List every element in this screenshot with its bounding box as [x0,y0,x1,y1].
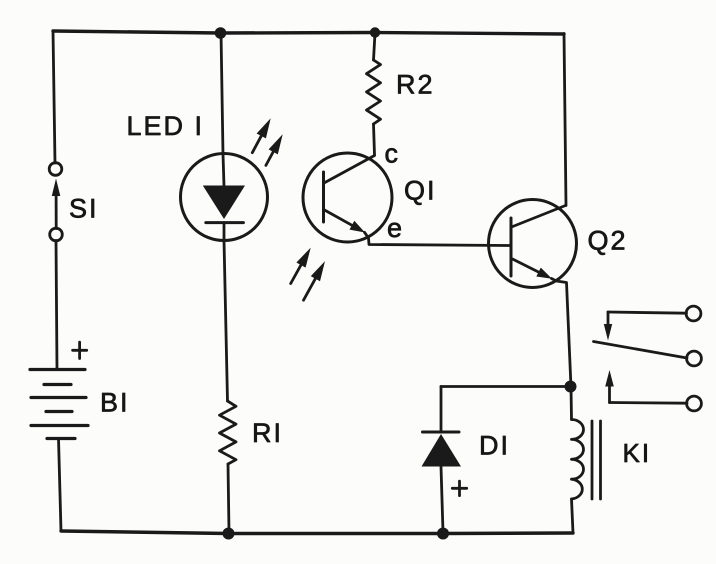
wire Q2 emitter down to relay [552,279,572,388]
wire coil to bottom rail [572,499,574,533]
svg-text:c: c [385,139,399,169]
node junction top of LED branch [215,27,227,39]
D1 plus sign [452,481,466,496]
svg-text:BI: BI [100,388,130,418]
wire top rail to LED [221,32,223,154]
Q1 light arrow b [304,261,326,300]
resistor R1 [220,401,237,464]
wire left vertical (top to S1) [53,31,55,163]
wire D1 top horizontal [441,385,570,388]
svg-text:SI: SI [69,194,99,224]
node junction D1 / relay [565,381,577,393]
wire LED to R1 [224,241,228,402]
LED1 diode [181,154,268,241]
relay K1 core bars [592,421,601,499]
wire down to D1 cathode [440,387,443,433]
diode D1 [422,432,462,532]
wire R1 to bottom rail [228,464,229,532]
resistor R2 [367,60,381,124]
wire battery to bottom rail [59,439,62,532]
battery B1 [30,370,88,439]
svg-text:QI: QI [404,176,437,206]
wire R2 to Q1 collector [374,124,375,155]
svg-text:KI: KI [623,438,652,468]
node junction top of R2 branch [370,27,380,37]
wire top rail to R2 [374,33,376,60]
relay contact common terminal [604,306,701,340]
transistor Q2 [489,200,577,288]
svg-text:R2: R2 [396,70,435,100]
svg-text:RI: RI [252,418,283,448]
relay contact blade and middle terminal [594,342,702,366]
relay contact lower terminal [605,370,701,411]
wire top rail right corner down to Q2 collector [564,34,566,206]
wire top rail [53,31,564,34]
switch S1 [49,163,62,241]
node junction D1 bottom [437,528,449,540]
Q1 light arrow a [291,248,311,284]
battery plus sign [73,342,87,358]
LED light arrow b [266,134,283,165]
wire S1 to battery [56,241,57,370]
wire junction to relay coil [570,387,573,420]
LED light arrow a [252,118,270,152]
svg-text:LED I: LED I [127,111,205,141]
node junction R1 bottom [223,528,235,540]
svg-text:Q2: Q2 [588,226,628,256]
relay K1 coil [572,420,584,500]
transistor Q1 (photo) [303,153,392,242]
svg-text:e: e [387,213,402,243]
wire Q1 emitter to Q2 base [365,232,512,245]
wire bottom rail [61,531,573,534]
svg-text:DI: DI [479,431,510,461]
